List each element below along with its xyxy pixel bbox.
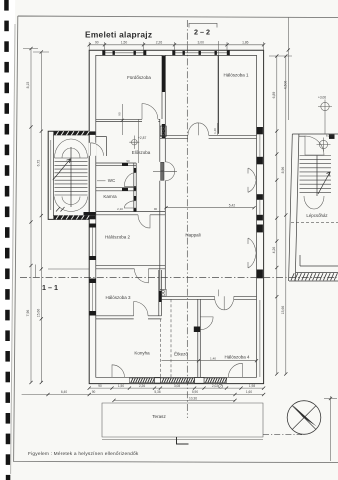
stair bay top hatched band [53,131,95,135]
eloszoba ceiling light symbol [129,136,146,149]
right wall french door pair 2 [248,238,256,268]
svg-text:7,96: 7,96 [26,310,30,317]
svg-text:2 – 2: 2 – 2 [194,28,210,37]
section 1-1 elbow [35,265,37,278]
haloszoba4 interior dimension line [162,360,257,362]
left wall extension line [48,268,89,270]
eloszoba door dim tick line [153,170,177,172]
bottom dimension line 1 [89,387,263,389]
svg-text:90: 90 [95,41,99,45]
haloszoba3 right wall jamb [159,291,162,302]
page edge line [11,24,15,474]
svg-text:3,08: 3,08 [174,384,180,388]
svg-text:90: 90 [98,384,102,388]
svg-text:Étkező: Étkező [174,351,188,357]
svg-text:2,02: 2,02 [212,384,218,388]
binding marks column [4,0,10,480]
top dimension line [89,44,263,46]
svg-text:Előszoba: Előszoba [132,150,151,155]
haloszoba3 door arc [134,269,148,283]
staircase up arrow [53,159,71,180]
svg-text:1 – 1: 1 – 1 [42,283,58,292]
svg-text:8,96: 8,96 [281,167,285,174]
lepcsohaz bottom wall hatch [291,273,337,280]
eloszoba double door butterfly [165,162,174,181]
bottom dimension line 2 [22,394,264,396]
bottom wall mullion blocks [155,378,205,384]
WC divider end poche [122,188,128,191]
stair bay outer wall [48,131,89,219]
svg-text:5,36: 5,36 [154,390,160,394]
lepcsohaz stair spine [316,156,318,197]
top wall window Haloszoba 1 [172,50,230,55]
bottom dimension line 3 [114,399,235,401]
svg-text:1,40: 1,40 [210,357,216,361]
staircase entry arrow marks [56,207,65,212]
hall top wall band [160,135,257,138]
bottom dimension numbers 2 [61,390,252,394]
terasz outline [102,403,263,440]
svg-text:+2,87: +2,87 [138,136,147,140]
kamra door arc [124,201,136,208]
far right top dimension line [287,18,289,121]
bathroom door dim extension [118,104,124,135]
bottom wall window hatch band 3 [204,378,227,383]
svg-text:8,15: 8,15 [26,82,30,89]
bathroom door arc [142,104,158,120]
svg-text:6,72: 6,72 [36,160,40,167]
svg-text:Hálószoba 3: Hálószoba 3 [105,295,131,300]
svg-text:Hálószoba 1: Hálószoba 1 [223,73,249,78]
bottom dimension numbers 1 [98,384,255,388]
svg-text:4,26: 4,26 [272,247,276,254]
svg-text:Lépcsőház: Lépcsőház [306,213,327,218]
haloszoba4 terrace door arc [228,363,242,377]
eloszoba vestibule stub wall [96,137,107,157]
svg-text:±0,00: ±0,00 [326,134,334,138]
haloszoba1 left wall [217,55,219,133]
svg-text:5,90: 5,90 [192,390,198,394]
corridor west wall jambs [134,168,137,212]
terasz section mark [177,437,189,444]
right dimension chain A [276,56,278,374]
svg-text:90: 90 [126,159,130,163]
left wall window Haloszoba 2 [89,224,96,261]
left dimension chain heads [23,49,49,53]
hall double door butterfly [188,123,209,136]
corridor east wall panel box 2 [160,289,166,296]
lepcsohaz stair arrow [318,172,330,194]
lepcsohaz stair bottom curve [304,196,324,209]
svg-text:1,98: 1,98 [249,384,255,388]
stair bay window mid line [50,140,52,210]
svg-text:1,60: 1,60 [246,390,252,394]
haloszoba3 bottom wall [96,316,162,319]
exterior wall outline inner [96,55,257,377]
lepcsohaz stair treads [300,156,332,193]
svg-text:Nappali: Nappali [185,233,200,238]
svg-text:90: 90 [118,112,122,116]
right dimension chain heads [269,55,292,57]
staircase top curve [55,139,88,158]
exterior wall outline outer [89,50,263,383]
haloszoba2 bottom wall [96,265,166,269]
svg-text:+3,06: +3,06 [318,96,326,100]
svg-text:2,10: 2,10 [117,207,123,211]
svg-text:4,506: 4,506 [283,81,287,90]
door from stair landing [91,143,104,156]
konyha terrace door arc [112,365,125,378]
upper level symbol [318,96,332,135]
lepcsohaz top wall jamb [329,134,335,139]
right dimension rotated numbers [272,92,285,315]
corridor west wall [134,163,136,212]
lepcsohaz top wall line [292,134,338,136]
left dimension chain A [30,49,32,383]
svg-text:Kamra: Kamra [103,194,117,199]
kamra bottom wall [96,212,166,215]
bathroom bottom wall [96,119,160,121]
bathroom right wall black fill [162,56,165,92]
etkezo dashed boundary 2 [170,299,172,377]
svg-text:10,36: 10,36 [189,396,197,400]
haloszoba4 door arc [200,317,213,330]
lepcsohaz entry door arc [305,136,324,155]
svg-text:1,50: 1,50 [121,41,128,45]
svg-text:Figyelem : Méretek a helyszíne: Figyelem : Méretek a helyszínen ellenőri… [28,451,139,457]
bottom wall window hatch band 1 [129,378,154,383]
staircase bottom curve [55,197,88,212]
svg-text:1,40: 1,40 [213,128,217,134]
svg-text:15,66: 15,66 [36,309,40,318]
staircase treads [55,158,88,195]
svg-text:6,89: 6,89 [272,92,276,99]
svg-text:1,86: 1,86 [242,41,249,45]
right wall window glazing lines [259,134,261,377]
hall door dim mark [213,123,218,135]
svg-text:90: 90 [92,390,96,394]
left wall window Haloszoba 3 [89,279,96,316]
left dimension chain B [40,52,42,383]
compass north symbol [287,401,321,435]
konyha etkezo dashed boundary [159,319,161,377]
top dimension extension lines [89,41,263,55]
section label 2-2 [189,23,217,27]
nappali south double door [215,296,234,310]
lepcsohaz bottom wall [289,255,338,281]
haloszoba4 west wall [198,299,201,377]
svg-text:Hálószoba 4: Hálószoba 4 [224,355,250,360]
haloszoba2 door arc [138,215,150,228]
svg-text:WC: WC [108,178,116,183]
svg-text:2,26: 2,26 [139,384,145,388]
svg-text:Hálószoba 2: Hálószoba 2 [105,235,131,240]
konyha door arc [134,302,148,316]
stair bay bottom hatched band [53,215,95,219]
eloszoba door leaves [161,162,164,180]
right wall french door pair 1 [248,168,256,192]
WC dim marks [117,159,157,211]
nappali bottom wall [162,296,257,299]
right wall jamb blocks [257,127,263,278]
WC north wall [96,163,136,166]
haloszoba4 west wall jamb [194,327,201,333]
svg-text:Emeleti alaprajz: Emeleti alaprajz [85,30,152,40]
WC label leader line [97,180,106,182]
corridor east wall [160,119,166,296]
left wall corner jamb at kamra wall [84,212,96,216]
lepcsohaz level symbol [317,134,335,152]
section line 2-2 vertical dash-dot [186,20,188,418]
nappali interior dimension line [166,207,254,209]
svg-text:Konyha: Konyha [134,351,150,356]
svg-text:Fürdőszoba: Fürdőszoba [127,75,151,80]
bottom wall window hatch band 2 [160,378,195,383]
lepcsohaz west wall [289,134,299,281]
top dimension numbers [95,41,249,45]
svg-text:Terasz: Terasz [152,414,166,419]
left dimension rotated numbers [26,82,40,318]
staircase spine [70,147,72,207]
terasz dash-dot extension [263,434,302,436]
haloszoba3 right wall [159,270,162,316]
section line 1-1 horizontal dash-dot [20,277,337,279]
top wall window Furdoszoba [102,50,146,55]
bathroom right wall [162,55,165,119]
svg-text:6,40: 6,40 [61,390,67,394]
right dimension chain B [285,56,287,374]
svg-text:3,00: 3,00 [197,41,204,45]
drain symbol [219,384,223,388]
svg-text:5,42: 5,42 [229,203,236,207]
door from stair landing opening [89,143,97,156]
WC north wall end poche [122,163,128,166]
svg-text:15,66: 15,66 [281,306,285,315]
lepcsohaz dashed line [291,221,338,223]
svg-text:1,50: 1,50 [118,384,124,388]
corridor east wall top black fill [162,124,166,138]
svg-text:90: 90 [154,207,158,211]
WC door arc [124,173,136,187]
bathroom door extension line [138,119,140,163]
far right bottom dimension line [330,396,332,461]
corridor east wall panel box [160,126,166,136]
svg-text:2,26: 2,26 [156,41,163,45]
WC kamra divider wall [96,188,136,191]
nappali door dim tick [218,290,220,297]
